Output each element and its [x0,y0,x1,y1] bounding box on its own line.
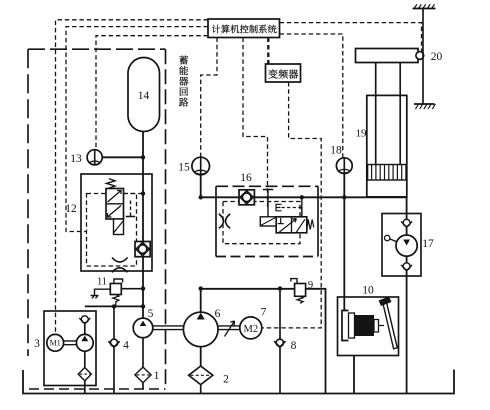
piston rod of cylinder 19 [376,63,401,166]
brake block (filled) [355,315,375,336]
wire: computer to valve 16 pilot (dashed control line) [243,38,268,207]
svg-text:3: 3 [34,338,40,350]
svg-text:15: 15 [178,162,190,174]
svg-text:1: 1 [154,370,160,382]
wire: valve 12 pilot dashed to main line [124,193,144,195]
lever head (filled) [379,297,392,307]
sensor 18 [330,145,352,311]
remote orifice (arcs) on block 12 envelope [112,258,128,273]
svg-text:17: 17 [422,238,434,250]
check valve (boxed) in block 16 [239,190,254,205]
wire: bottom tank line [23,370,454,394]
shaft pump5-pump6 [153,326,184,330]
svg-text:4: 4 [123,340,129,352]
wire: computer to inverter (heavy dashed line) [267,38,269,65]
cylinder 19 body [367,95,407,196]
svg-text:10: 10 [362,285,374,297]
wire: main accumulator vertical line [142,132,144,319]
motor M2 (component 7) [240,307,267,339]
unit 17 box [382,214,421,277]
brake rod [374,320,384,333]
filter 2 [189,366,230,394]
lever arm (diagonal) [383,301,398,349]
svg-text:13: 13 [70,153,82,165]
brake pad [349,313,355,338]
accumulator-circuit enclosure (chain line box) [28,49,166,389]
ball check top in unit 17 [401,219,412,227]
wire: computer to displacement sensor 20 (dashed line) [280,23,422,52]
svg-text:8: 8 [291,340,297,352]
svg-text:5: 5 [148,308,154,320]
svg-text:12: 12 [65,203,77,215]
check valve (boxed) on main line in block 12 [135,242,150,257]
valve block 12 inner dashed envelope [87,194,137,267]
svg-text:18: 18 [330,145,342,157]
svg-text:19: 19 [356,128,368,140]
valve 12 drain to tank (T symbol) [126,201,135,217]
sensor 13 (pressure transducer) [70,150,143,165]
brake shoe bracket [342,311,349,341]
ball check bottom in unit 17 [401,263,412,271]
filter diamond of unit 3 [78,368,91,394]
valve block 12 outer rectangle [81,174,152,271]
valve block 16 outer box [216,186,318,256]
wire: relief/sequence header y=288.6 [201,289,326,394]
svg-text:9: 9 [308,280,313,291]
wire: main pressure header y=197.3 [201,196,407,198]
accumulator 14 [128,58,160,132]
shaft between M1 and pump 3 [64,341,77,345]
shaft pump6-motorM2 with variable arrow [218,321,240,337]
wire: computer to valve 12 solenoid (dashed control line) [66,27,208,232]
wire: pump suction header y=306 [85,305,143,307]
computer control system box (计算机控制系统) [208,19,280,38]
ball check valve 4 [108,306,129,393]
svg-text:2: 2 [223,374,229,386]
main pump 6 [183,289,220,367]
pilot valve 12 (solenoid cartridge valve) [106,179,124,235]
press platen (top plate) [356,49,419,63]
ball check valve above pump 3 [79,316,90,324]
svg-text:M2: M2 [244,324,259,335]
brake/load unit 10 box [338,297,399,356]
variable motor in unit 17 [385,235,418,256]
wire: unit 10 drain to tank [353,356,355,394]
fixed support hatching (bottom) [414,104,435,109]
wire: computer to motor M1 (dashed control line) [56,20,209,335]
svg-text:M1: M1 [50,339,61,348]
svg-text:14: 14 [138,90,150,102]
svg-text:20: 20 [431,51,443,63]
orifice arcs in block 16 [219,214,230,229]
vertical label 蓄能器回路 (accumulator circuit) [179,56,188,107]
relief valve 11 [91,277,144,307]
svg-text:7: 7 [261,307,267,319]
wire: inverter to motor M2 (dashed control line) [262,82,321,328]
plugged port T at top of block 16 [263,190,274,217]
wire: computer to sensor 15 (dashed control line) [201,38,217,158]
piston with hatched seal band [368,165,406,181]
pump 5 [133,308,153,338]
pump of unit 3 [76,323,93,368]
relief valve 9 [291,279,313,304]
filter 1 [135,338,160,389]
wire: computer to sensor 13 (dashed control line) [96,36,208,150]
motor-pump unit 3 housing [44,311,96,386]
motor M1 of unit 3 [47,334,64,351]
proportional directional valve in block 16 [260,197,314,233]
svg-text:16: 16 [240,172,252,184]
wire: computer to sensor 18 (dashed line) [280,34,343,158]
displacement sensor 20 [416,51,443,63]
svg-text:11: 11 [97,277,107,288]
inverter box (变频器) [266,64,301,82]
ball check valve 8 [274,289,297,394]
fixed support hatching (top) [413,4,436,8]
junction nodes [112,155,347,308]
valve block 16 inner dashed envelope [223,202,300,244]
sensor 15 [178,157,209,197]
svg-text:6: 6 [215,308,221,320]
sensor 20 reference line [422,9,424,105]
wire: cylinder to unit 17 to tank [406,197,408,394]
